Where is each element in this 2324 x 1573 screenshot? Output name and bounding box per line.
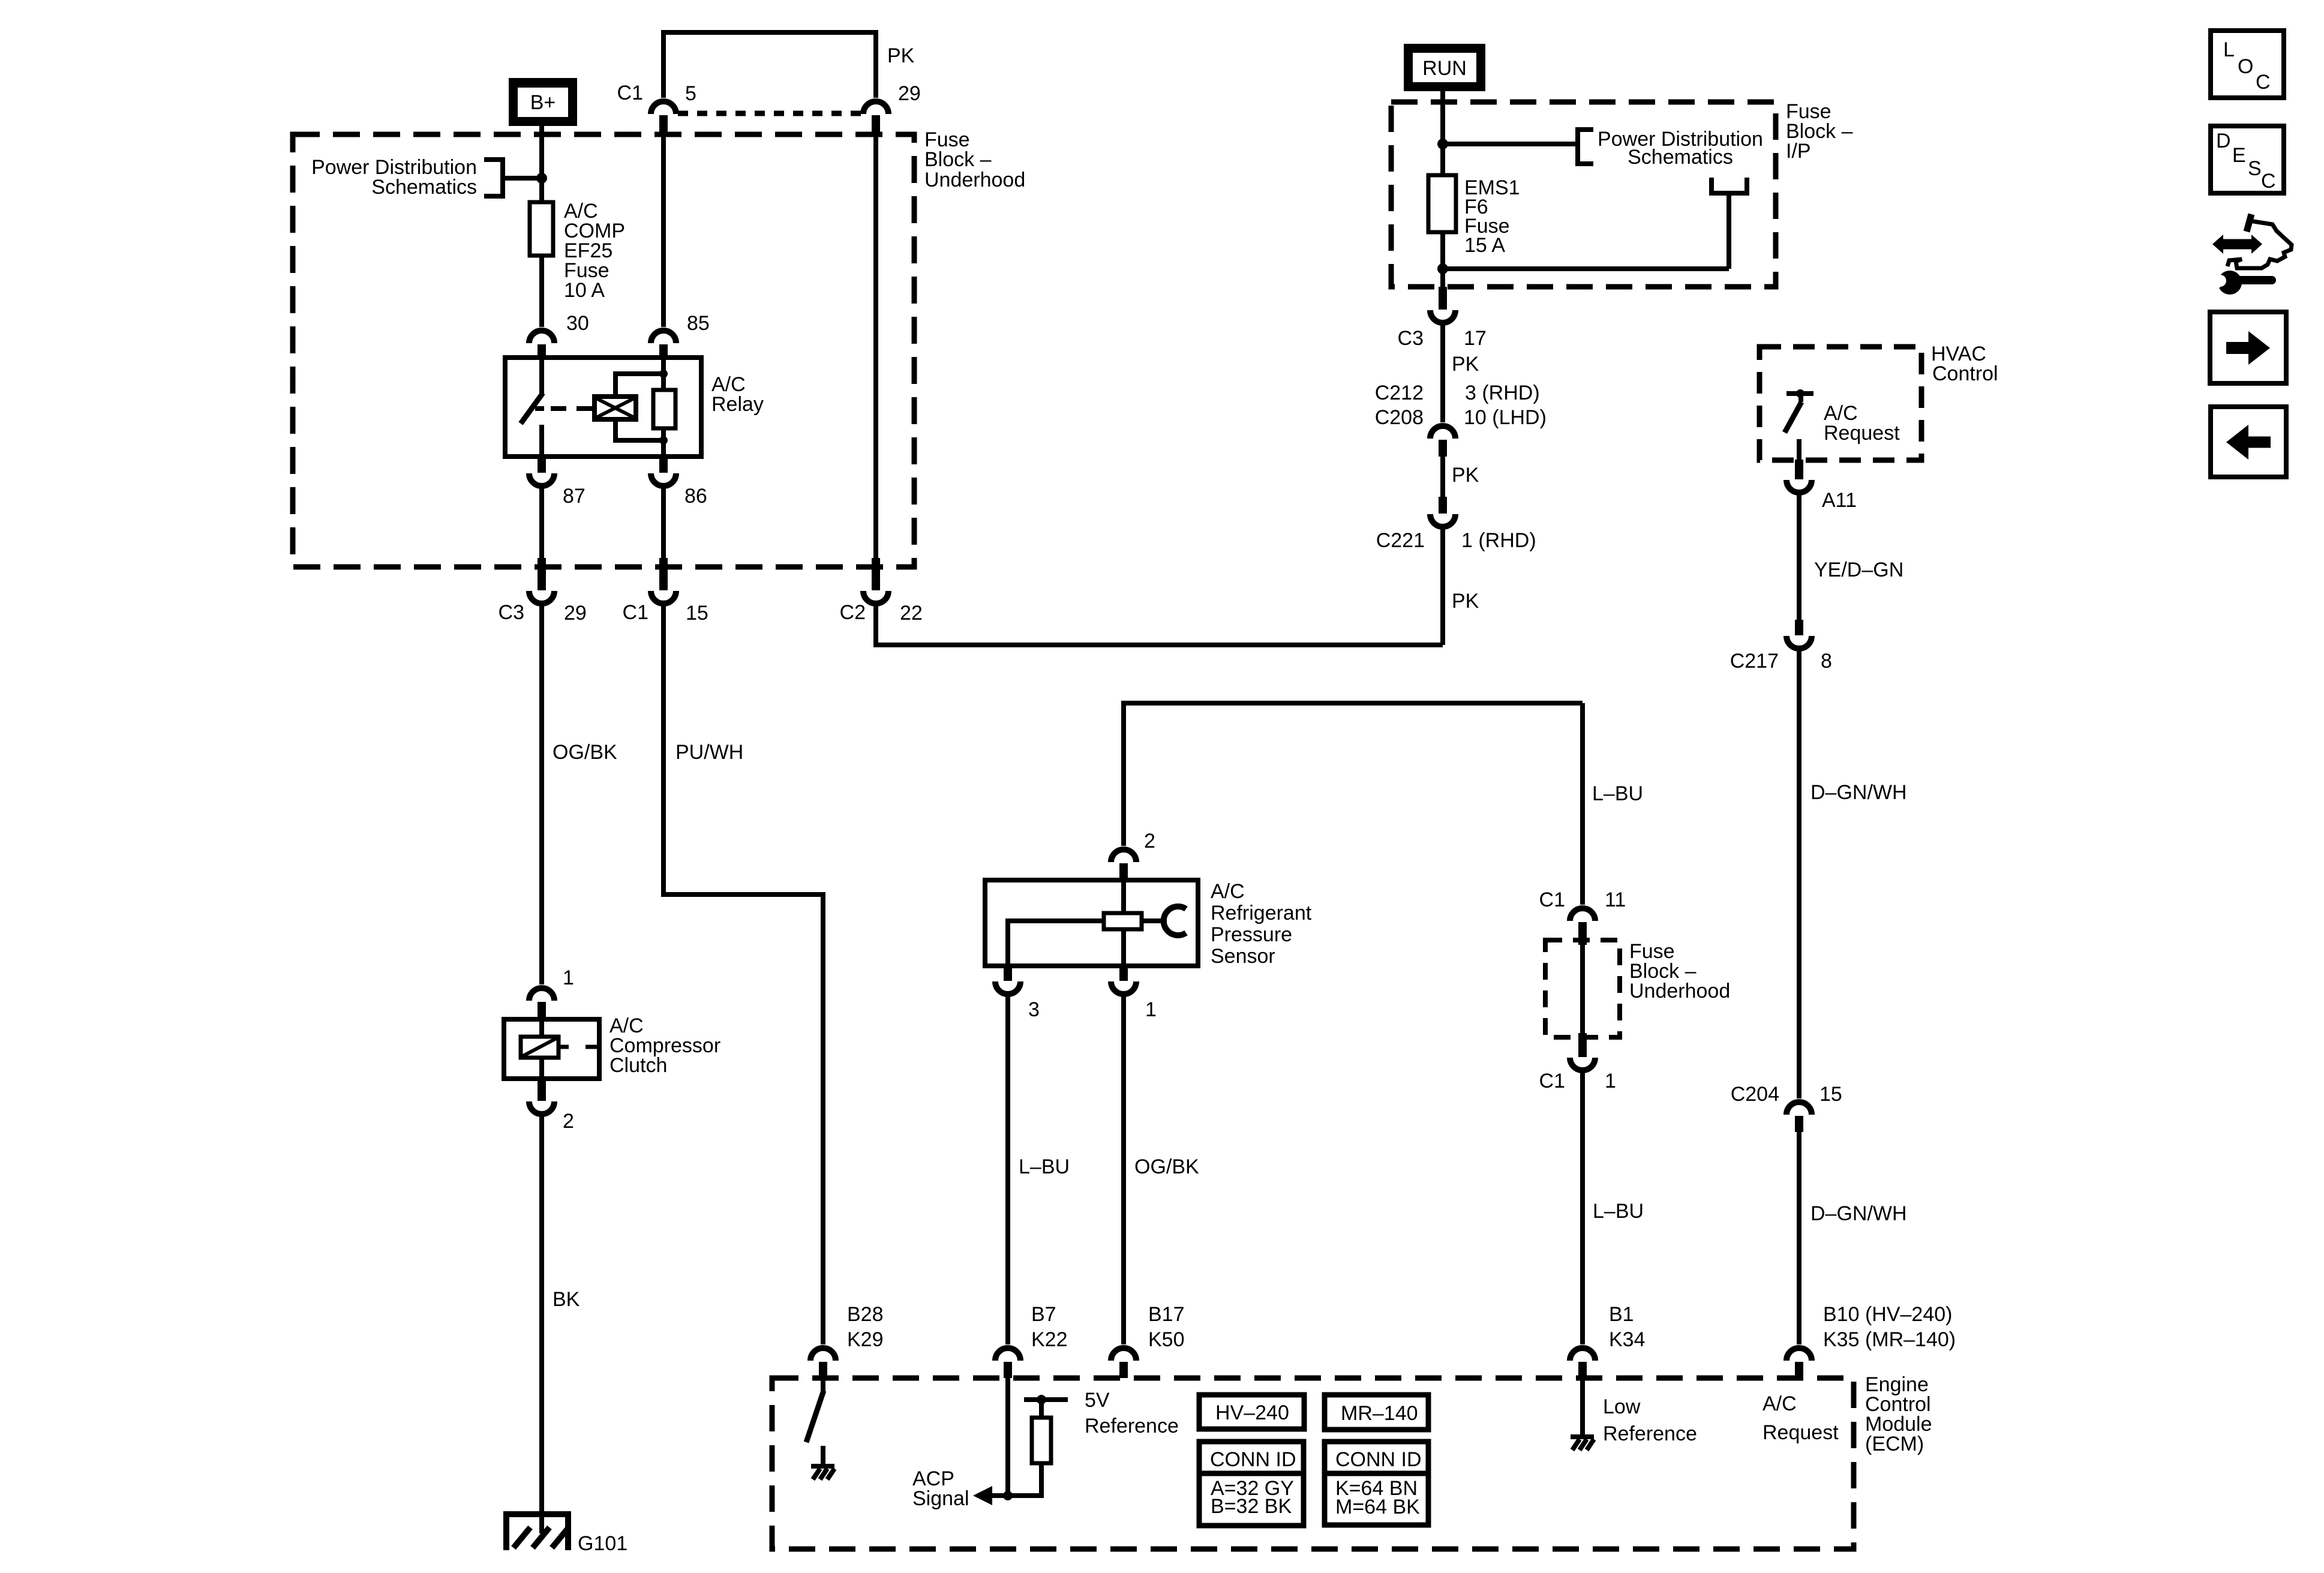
- connector clutch pin 1: [529, 988, 554, 1019]
- svg-text:Pressure: Pressure: [1211, 923, 1292, 946]
- svg-text:PK: PK: [1452, 590, 1479, 613]
- svg-text:A/C: A/C: [1762, 1392, 1797, 1415]
- HVAC control dashed box: [1759, 347, 1921, 460]
- junction dot ACP: [1003, 1491, 1013, 1500]
- C204 15 labels: [1731, 1083, 1842, 1106]
- svg-text:Signal: Signal: [912, 1487, 969, 1510]
- ACP signal arrow: [973, 1486, 1008, 1505]
- svg-text:B28: B28: [847, 1303, 884, 1326]
- C3 29 labels: [499, 601, 587, 625]
- svg-text:1: 1: [1145, 998, 1157, 1021]
- svg-text:G101: G101: [578, 1532, 627, 1555]
- ECM label: [1865, 1373, 1932, 1455]
- relay actuator dashed link: [551, 406, 593, 411]
- B7 wire inside ECM: [1005, 1378, 1010, 1496]
- CONN ID table A: [1199, 1442, 1304, 1526]
- svg-text:OG/BK: OG/BK: [1134, 1155, 1199, 1178]
- A/C request label hvac: [1824, 402, 1900, 445]
- svg-text:CONN ID: CONN ID: [1335, 1448, 1422, 1471]
- power distribution schematics callout: [311, 156, 542, 199]
- connector B7: [995, 1348, 1020, 1378]
- svg-text:Sensor: Sensor: [1211, 945, 1275, 968]
- small fuse block dashed box: [1545, 940, 1620, 1037]
- junction dot below fuse: [1437, 263, 1448, 274]
- relay coil top lead: [615, 374, 663, 397]
- svg-text:C208: C208: [1375, 406, 1424, 429]
- junction dot coil bottom: [659, 436, 668, 445]
- ECM ACP switch: [806, 1378, 824, 1465]
- svg-text:D: D: [2216, 130, 2231, 152]
- svg-text:B=32 BK: B=32 BK: [1211, 1495, 1292, 1518]
- wire B+ to fuse: [539, 126, 544, 202]
- svg-text:B+: B+: [530, 91, 556, 114]
- wire top run down to C1 11: [1580, 703, 1585, 905]
- svg-text:C221: C221: [1376, 529, 1425, 552]
- svg-text:3: 3: [1028, 998, 1040, 1021]
- fuse A/C COMP EF25 10A: [530, 202, 553, 256]
- wire C3-17 to C212: [1440, 325, 1445, 422]
- power distribution callout IP top: [1443, 130, 1593, 164]
- wire C2-22 corner to PK riser: [876, 605, 1443, 645]
- connector sensor pin 3: [995, 966, 1020, 994]
- ground G101: [503, 1514, 571, 1550]
- MR-140 box: [1325, 1395, 1428, 1430]
- svg-text:Reference: Reference: [1085, 1415, 1179, 1437]
- relay coil: [594, 397, 636, 419]
- svg-text:C204: C204: [1731, 1083, 1779, 1106]
- dashed wire 5 to 29: [678, 111, 861, 116]
- RUN symbol: [1404, 44, 1485, 91]
- C1 5 labels: [617, 82, 696, 105]
- svg-text:15: 15: [1819, 1083, 1842, 1106]
- svg-text:87: 87: [563, 485, 585, 508]
- svg-text:15 A: 15 A: [1464, 234, 1505, 257]
- connector pin 85: [651, 331, 676, 358]
- wire clutch pin2 to G101: [539, 1116, 544, 1533]
- svg-text:C: C: [2261, 170, 2276, 193]
- svg-text:B7: B7: [1031, 1303, 1056, 1326]
- wire RUN into fuse block: [1440, 91, 1445, 175]
- svg-text:B1: B1: [1609, 1303, 1634, 1326]
- svg-text:C217: C217: [1730, 650, 1779, 673]
- connector pin 86: [651, 457, 676, 486]
- wire fuse EMS1 down: [1440, 232, 1445, 294]
- svg-text:C3: C3: [1398, 327, 1424, 350]
- svg-text:22: 22: [900, 602, 923, 625]
- A/C request switch: [1785, 389, 1813, 460]
- battery B+ symbol: [509, 78, 577, 126]
- svg-text:PK: PK: [1452, 464, 1479, 487]
- relay switch: [521, 358, 544, 457]
- sensor internal left branch: [1008, 921, 1104, 966]
- HV-240 box: [1199, 1395, 1304, 1429]
- svg-text:5: 5: [685, 82, 696, 105]
- sensor pressure port symbol: [1142, 906, 1186, 935]
- svg-text:YE/D–GN: YE/D–GN: [1814, 559, 1903, 581]
- svg-text:C212: C212: [1375, 382, 1424, 404]
- low reference label: [1603, 1395, 1697, 1445]
- svg-text:L–BU: L–BU: [1593, 1200, 1644, 1223]
- A/C request label ecm: [1762, 1392, 1839, 1444]
- low reference ground: [1571, 1378, 1594, 1450]
- svg-text:OG/BK: OG/BK: [553, 741, 617, 764]
- svg-text:K29: K29: [847, 1328, 884, 1351]
- wire C217 to C204: [1797, 650, 1801, 1098]
- svg-text:BK: BK: [553, 1288, 580, 1311]
- connector C1 5: [651, 101, 676, 134]
- relay resistor: [653, 390, 675, 428]
- svg-text:5V: 5V: [1085, 1389, 1110, 1412]
- icon schematic reference outline: [2227, 214, 2292, 268]
- connector sensor pin 2: [1111, 849, 1136, 880]
- svg-text:B10 (HV–240): B10 (HV–240): [1823, 1303, 1952, 1326]
- svg-text:Underhood: Underhood: [924, 169, 1025, 191]
- B10 K35 labels: [1823, 1303, 1956, 1351]
- svg-text:85: 85: [687, 312, 710, 335]
- connector C2 22: [863, 558, 888, 604]
- clutch coil: [521, 1019, 559, 1079]
- fuse block IP label: [1786, 100, 1853, 163]
- svg-text:86: 86: [684, 485, 707, 508]
- svg-text:D–GN/WH: D–GN/WH: [1810, 1202, 1907, 1225]
- svg-text:MR–140: MR–140: [1341, 1402, 1418, 1425]
- connector C217 8: [1786, 620, 1812, 649]
- sensor internal resistor: [1104, 880, 1142, 966]
- relay coil bottom lead: [615, 419, 663, 440]
- svg-text:17: 17: [1464, 327, 1487, 350]
- svg-text:C: C: [2256, 71, 2271, 94]
- C212 C208 labels: [1375, 382, 1547, 429]
- svg-text:10 A: 10 A: [564, 279, 605, 302]
- connector B1: [1570, 1348, 1595, 1378]
- svg-text:E: E: [2232, 144, 2246, 167]
- svg-text:Schematics: Schematics: [1628, 146, 1733, 169]
- svg-text:L–BU: L–BU: [1019, 1155, 1070, 1178]
- svg-text:PK: PK: [887, 44, 915, 67]
- C1 11 labels: [1539, 888, 1626, 911]
- svg-text:B17: B17: [1148, 1303, 1185, 1326]
- svg-text:Underhood: Underhood: [1629, 980, 1730, 1002]
- svg-text:1 (RHD): 1 (RHD): [1461, 529, 1536, 552]
- clutch label: [609, 1014, 720, 1077]
- svg-text:C1: C1: [617, 82, 643, 104]
- svg-text:Control: Control: [1932, 362, 1998, 385]
- svg-text:K22: K22: [1031, 1328, 1068, 1351]
- relay resistor wires: [661, 358, 666, 457]
- wire C3-29 to clutch pin 1: [539, 605, 544, 984]
- icon wrench: [2205, 271, 2272, 295]
- svg-text:M=64 BK: M=64 BK: [1335, 1496, 1420, 1518]
- connector C1 1: [1570, 1033, 1595, 1070]
- CONN ID table K: [1325, 1442, 1428, 1525]
- svg-text:Request: Request: [1762, 1421, 1839, 1444]
- power distribution callout IP bottom: [1443, 178, 1747, 269]
- svg-text:11: 11: [1605, 888, 1626, 911]
- connector 29: [863, 101, 888, 136]
- icon arrow right box: [2210, 312, 2286, 383]
- 5V reference label: [1085, 1389, 1179, 1437]
- small fuse block label: [1629, 940, 1730, 1002]
- wire pin 3 to B7: [1005, 996, 1010, 1344]
- svg-text:L–BU: L–BU: [1592, 782, 1643, 805]
- power distribution schematics label IP: [1598, 128, 1763, 169]
- svg-text:CONN ID: CONN ID: [1210, 1448, 1296, 1471]
- wire through small fuse block: [1580, 945, 1585, 1033]
- svg-text:PK: PK: [1452, 353, 1479, 376]
- clutch gap symbol: [559, 1045, 599, 1049]
- C2 22 labels: [840, 601, 923, 625]
- wire C1-15 down and jog right: [663, 605, 823, 1344]
- connector C221: [1430, 497, 1455, 527]
- icon DESC box: [2211, 126, 2284, 193]
- wire C212 to C221: [1440, 457, 1445, 497]
- svg-text:C1: C1: [1539, 888, 1565, 911]
- junction dot coil top: [659, 370, 668, 378]
- wire C204 to B10: [1797, 1132, 1801, 1344]
- relay label: [711, 373, 764, 416]
- svg-text:10 (LHD): 10 (LHD): [1464, 406, 1547, 429]
- icon arrow left box: [2211, 407, 2286, 477]
- junction node on B+ wire: [536, 173, 547, 184]
- connector B10: [1786, 1348, 1812, 1378]
- svg-text:29: 29: [564, 602, 587, 625]
- svg-text:K50: K50: [1148, 1328, 1185, 1351]
- svg-text:C1: C1: [623, 601, 648, 624]
- 5V reference rail: [1024, 1395, 1068, 1418]
- svg-text:Refrigerant: Refrigerant: [1211, 902, 1312, 924]
- svg-text:Low: Low: [1603, 1395, 1641, 1418]
- svg-text:Schematics: Schematics: [371, 176, 477, 199]
- svg-text:D–GN/WH: D–GN/WH: [1810, 781, 1907, 804]
- icon LOC box: [2211, 31, 2284, 98]
- svg-text:Block –: Block –: [924, 148, 992, 171]
- C3 17 labels: [1398, 327, 1487, 350]
- svg-text:HV–240: HV–240: [1215, 1401, 1289, 1424]
- svg-text:O: O: [2238, 55, 2253, 78]
- connector C1 15: [651, 558, 676, 604]
- connector B28: [810, 1348, 836, 1378]
- connector pin 87: [529, 457, 554, 486]
- junction dot run: [1437, 139, 1448, 149]
- wire fuse to relay pin 30: [539, 256, 544, 327]
- svg-text:(ECM): (ECM): [1865, 1433, 1924, 1455]
- connector sensor pin 1: [1111, 966, 1136, 994]
- HVAC control label: [1931, 343, 1998, 385]
- wire pin 1 to B17: [1121, 996, 1126, 1344]
- svg-text:Request: Request: [1824, 422, 1900, 445]
- svg-text:30: 30: [566, 312, 589, 335]
- connector pin 30: [529, 331, 554, 358]
- wire C1-1 to B1: [1580, 1072, 1585, 1344]
- svg-text:15: 15: [686, 602, 708, 625]
- svg-text:A/C: A/C: [1211, 880, 1245, 903]
- connector C3 17: [1430, 287, 1455, 323]
- ACP signal label: [912, 1467, 969, 1510]
- svg-text:C1: C1: [1539, 1070, 1565, 1092]
- ECM dashed box: [772, 1378, 1854, 1549]
- svg-text:K35 (MR–140): K35 (MR–140): [1823, 1328, 1956, 1351]
- fuse block underhood label: [924, 128, 1025, 191]
- C1 15 labels: [623, 601, 708, 625]
- svg-text:3 (RHD): 3 (RHD): [1465, 382, 1540, 404]
- svg-text:L: L: [2223, 38, 2235, 61]
- wire 29 to C2-22: [873, 136, 878, 558]
- resistor to ACP node: [1008, 1463, 1041, 1496]
- svg-text:K34: K34: [1609, 1328, 1646, 1351]
- svg-text:RUN: RUN: [1422, 57, 1467, 80]
- wire sensor pin2 riser and top run: [1124, 703, 1583, 846]
- svg-text:Clutch: Clutch: [609, 1054, 667, 1077]
- relay A/C box: [505, 358, 701, 457]
- ECM resistor: [1032, 1418, 1051, 1463]
- fuse block IP dashed box: [1391, 102, 1776, 287]
- sensor label: [1211, 880, 1312, 968]
- svg-text:Relay: Relay: [711, 393, 764, 416]
- svg-text:1: 1: [1605, 1070, 1616, 1092]
- A/C compressor clutch box: [504, 1019, 599, 1079]
- fuse block underhood dashed box: [293, 134, 914, 567]
- fuse label: [564, 200, 625, 302]
- svg-text:8: 8: [1821, 650, 1832, 673]
- B1 K34 labels: [1609, 1303, 1646, 1351]
- svg-text:S: S: [2248, 157, 2262, 180]
- C221 labels: [1376, 529, 1536, 552]
- fuse EMS1 label: [1464, 176, 1520, 257]
- svg-text:C3: C3: [499, 601, 524, 624]
- svg-text:29: 29: [898, 82, 921, 105]
- wire 86 down: [661, 486, 666, 558]
- svg-text:I/P: I/P: [1786, 140, 1811, 163]
- top jumper rectangle: [663, 32, 876, 98]
- connector A11: [1786, 460, 1812, 493]
- svg-text:PU/WH: PU/WH: [675, 741, 743, 764]
- connector C1 11: [1570, 908, 1595, 945]
- svg-text:Reference: Reference: [1603, 1422, 1697, 1445]
- C1 1 labels: [1539, 1070, 1616, 1092]
- svg-text:2: 2: [563, 1110, 574, 1133]
- svg-text:A11: A11: [1822, 489, 1857, 512]
- C217 8 labels: [1730, 650, 1832, 673]
- connector C204 15: [1786, 1102, 1812, 1132]
- svg-text:C2: C2: [840, 601, 866, 624]
- connector B17: [1111, 1348, 1136, 1378]
- fuse EMS1 F6 15A: [1428, 175, 1456, 232]
- icon schematic reference arrow: [2212, 235, 2262, 254]
- svg-text:1: 1: [563, 966, 574, 989]
- wire C221 down to corner: [1440, 529, 1445, 645]
- wire C1-5 to pin 85: [661, 134, 666, 327]
- connector C3 29: [529, 558, 554, 604]
- B28 K29 labels: [847, 1303, 884, 1351]
- connector clutch pin 2: [529, 1079, 554, 1114]
- B7 K22 labels: [1031, 1303, 1068, 1351]
- B17 K50 labels: [1148, 1303, 1185, 1351]
- wire A11 to C217: [1797, 494, 1801, 620]
- wire 87 down: [539, 486, 544, 558]
- ECM ACP ground: [811, 1466, 834, 1479]
- A/C refrigerant pressure sensor box: [985, 880, 1198, 966]
- connector C212 C208: [1430, 426, 1455, 457]
- svg-text:2: 2: [1144, 830, 1155, 852]
